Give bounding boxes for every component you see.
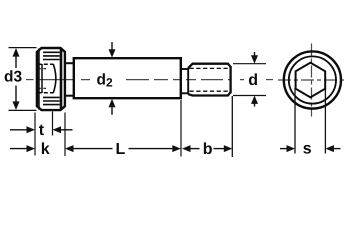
s extension line left: [294, 88, 296, 154]
svg-text:t: t: [39, 122, 45, 139]
head knurl boundary line: [60, 48, 63, 110]
extension line thread end: [231, 96, 233, 157]
head left chamfer line: [41, 64, 43, 93]
hex socket hexagon: [296, 63, 326, 98]
dimension d3 extension lines: [9, 48, 37, 111]
end view outer circle: [284, 51, 341, 108]
svg-text:d: d: [248, 72, 258, 89]
hex socket hidden lines: [38, 64, 54, 93]
head left face double line: [38, 49, 40, 110]
shoulder cylinder d2: [74, 58, 181, 98]
centerline end view vertical: [311, 44, 313, 117]
centerline end view horizontal: [278, 79, 347, 81]
dimension t: [10, 126, 73, 133]
extension line shoulder end: [180, 100, 182, 157]
thread minor diameter dashed: [190, 68, 230, 91]
dimension s arrows: [280, 145, 341, 152]
svg-text:L: L: [116, 141, 126, 158]
neck groove under head: [65, 63, 74, 95]
thread undercut groove: [181, 68, 188, 95]
svg-text:s: s: [303, 141, 312, 158]
head outline: [37, 48, 65, 110]
thread outline: [188, 64, 230, 96]
s extension line right: [324, 88, 326, 154]
svg-text:d3: d3: [4, 69, 22, 86]
head knurl lines bottom: [43, 97, 60, 104]
dimension b line with arrows: [182, 145, 232, 152]
dimension d3 line and arrows: [13, 48, 20, 110]
dimension k left arrow: [10, 145, 35, 152]
dimension d arrows: [251, 52, 258, 107]
hex socket bottom arc: [53, 64, 56, 93]
head knurl lines top: [43, 52, 60, 59]
extension line socket depth t: [52, 112, 54, 136]
centerline main axis: [26, 79, 273, 81]
svg-text:b: b: [203, 141, 213, 158]
end view inner circle: [289, 56, 336, 103]
svg-text:k: k: [41, 141, 50, 158]
dimension d extension lines: [233, 64, 266, 96]
extension line head left face: [34, 113, 36, 156]
dimension L line with arrows: [65, 145, 181, 152]
extension line head right face k: [64, 113, 66, 157]
dimension d2 arrows: [109, 42, 116, 115]
